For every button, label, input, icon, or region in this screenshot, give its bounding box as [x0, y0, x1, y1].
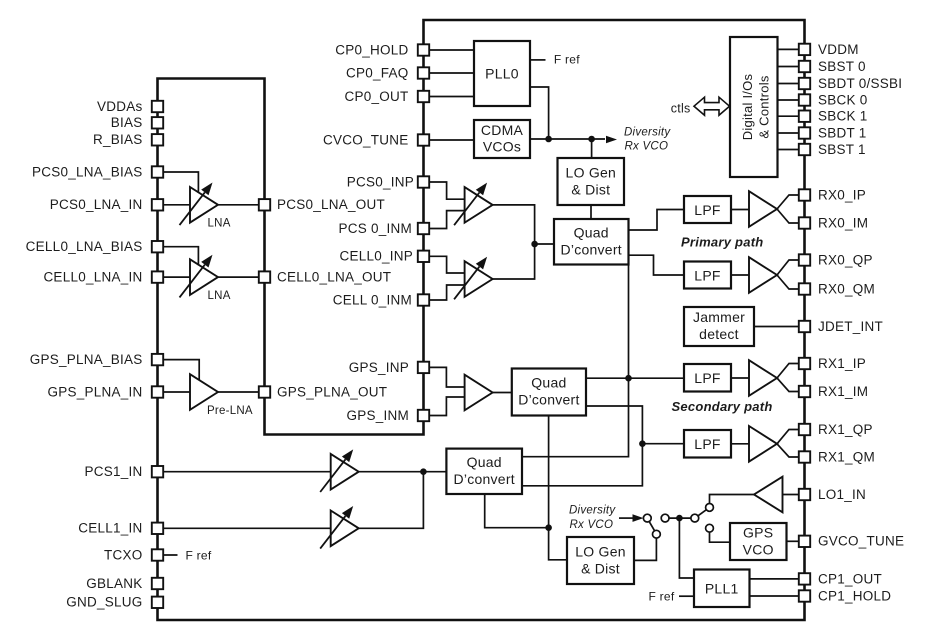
svg-text:LNA: LNA — [208, 290, 231, 302]
svg-text:GND_SLUG: GND_SLUG — [66, 595, 142, 610]
svg-text:SBST 1: SBST 1 — [818, 142, 866, 157]
block GPS VCO — [730, 523, 787, 560]
wire Diversity arrow line (bottom) — [619, 517, 633, 519]
pin CELL1_IN — [152, 523, 163, 534]
svg-text:GPS: GPS — [743, 525, 773, 541]
wire Quad primary corner rail down to diversity Quad — [522, 265, 629, 457]
block Quad D'convert (primary) — [554, 219, 629, 265]
svg-text:RX1_QM: RX1_QM — [818, 449, 875, 464]
wire Quad secondary LO down — [548, 416, 550, 528]
wire G down to GPS VCO — [710, 532, 731, 542]
svg-text:RX0_IM: RX0_IM — [818, 215, 868, 230]
svg-text:PCS0_LNA_IN: PCS0_LNA_IN — [50, 197, 143, 212]
pin LO1_IN — [799, 489, 810, 500]
svg-text:GPS_INM: GPS_INM — [346, 408, 409, 423]
svg-text:SBCK 1: SBCK 1 — [818, 109, 868, 124]
svg-text:VDDAs: VDDAs — [97, 99, 143, 114]
switch contact E (rail right) — [691, 514, 699, 522]
svg-text:CP1_OUT: CP1_OUT — [818, 571, 882, 586]
junction RX1 Q node — [639, 440, 646, 447]
svg-text:VCOs: VCOs — [483, 139, 521, 155]
wire CDMA VCOs out to Diversity arrow — [530, 138, 605, 140]
wire LPF to RX0 I amp — [731, 209, 749, 211]
svg-text:LO Gen: LO Gen — [575, 543, 626, 559]
pin RX1_IP — [799, 358, 810, 369]
pin GPS_PLNA_OUT — [259, 386, 270, 397]
pin GPS_INM — [418, 410, 429, 421]
svg-text:PCS1_IN: PCS1_IN — [84, 464, 142, 479]
svg-text:CELL 0_INM: CELL 0_INM — [333, 292, 412, 307]
wire Quad secondary I out to LPF — [586, 377, 684, 379]
wire LO Gen diversity out to switch — [634, 538, 656, 560]
wire Digital I/O stub y=149.5 — [778, 149, 800, 151]
svg-text:LO Gen: LO Gen — [566, 164, 617, 180]
wire GPS_PLNA_IN to Pre-LNA — [158, 391, 191, 393]
wire RX1 I fork to RX1_IP — [777, 364, 800, 379]
wire F ref stub to PLL1 — [679, 595, 694, 597]
pin CELL0_LNA_OUT — [259, 271, 270, 282]
pin GND_SLUG — [152, 597, 163, 608]
svg-text:LPF: LPF — [694, 267, 720, 283]
svg-text:& Dist: & Dist — [571, 181, 610, 197]
wire PCS1 VGA out to Quad diversity — [359, 471, 447, 473]
wire PLL1 to CP1_OUT — [750, 578, 800, 580]
wire node to Quad primary — [535, 243, 554, 245]
svg-text:F ref: F ref — [649, 589, 675, 603]
svg-text:VCO: VCO — [743, 541, 774, 557]
svg-text:GVCO_TUNE: GVCO_TUNE — [818, 534, 904, 549]
block Quad D'convert (diversity) — [446, 449, 522, 494]
pin SBCK0 — [799, 94, 810, 105]
arrowhead Diversity Rx VCO (bottom) — [633, 514, 644, 522]
pin CELL0_LNA_IN — [152, 271, 163, 282]
block LPF (RX0 I) — [684, 196, 731, 223]
svg-text:GPS_PLNA_BIAS: GPS_PLNA_BIAS — [30, 352, 143, 367]
switch contact B (to LO Gen) — [653, 530, 661, 538]
svg-text:JDET_INT: JDET_INT — [818, 319, 883, 334]
svg-text:& Controls: & Controls — [757, 75, 772, 138]
pin PCS0_INM — [418, 223, 429, 234]
svg-text:RX1_IP: RX1_IP — [818, 356, 866, 371]
svg-text:VDDM: VDDM — [818, 42, 859, 57]
svg-text:PCS0_LNA_OUT: PCS0_LNA_OUT — [277, 197, 385, 212]
bidirectional arrow ctls — [694, 97, 730, 115]
junction RX1 I node — [625, 375, 632, 382]
svg-text:BIAS: BIAS — [111, 115, 143, 130]
svg-text:LPF: LPF — [694, 370, 720, 386]
svg-text:CDMA: CDMA — [481, 122, 524, 138]
svg-text:Quad: Quad — [467, 454, 502, 470]
pin GPS_PLNA_BIAS — [152, 354, 163, 365]
wire Quad primary Q out to LPF — [629, 255, 685, 275]
wire Quad diversity LO — [485, 494, 549, 528]
svg-text:CVCO_TUNE: CVCO_TUNE — [323, 132, 409, 147]
amplifier VGA (CELL1) — [331, 511, 359, 547]
wire PCS0_LNA_BIAS to LNA1 — [158, 172, 199, 193]
svg-text:& Dist: & Dist — [581, 560, 620, 576]
wire F up to LO1 buffer — [710, 495, 755, 504]
svg-text:PLL0: PLL0 — [485, 65, 519, 81]
svg-text:CP1_HOLD: CP1_HOLD — [818, 588, 891, 603]
svg-text:Rx VCO: Rx VCO — [625, 141, 669, 153]
svg-text:PCS 0_INM: PCS 0_INM — [338, 221, 412, 236]
pin CELL0_INM — [418, 294, 429, 305]
wire GPS VCO to GVCO_TUNE — [787, 540, 800, 542]
pin GPS_INP — [418, 362, 429, 373]
switch contact C (rail left) — [661, 514, 669, 522]
svg-text:ctls: ctls — [671, 101, 691, 115]
wire PCS0_LNA_IN to LNA1 — [158, 204, 191, 206]
pin CP0_FAQ — [418, 67, 429, 78]
svg-text:CP0_OUT: CP0_OUT — [344, 89, 408, 104]
junction mixer input node — [531, 241, 538, 248]
svg-text:RX0_QM: RX0_QM — [818, 281, 875, 296]
amplifier VGA (CELL0 main) — [465, 261, 493, 297]
wire CELL0_INP to VGA — [424, 256, 465, 273]
wire CP0_FAQ stub to PLL0 — [424, 72, 475, 74]
wire CVCO_TUNE stub to CDMA VCOs — [424, 139, 475, 141]
svg-text:PCS0_LNA_BIAS: PCS0_LNA_BIAS — [32, 164, 143, 179]
wire CELL0 VGA out to mixer node — [493, 244, 535, 279]
wire LNA1 out to PCS0_LNA_OUT — [218, 204, 265, 206]
pin CVCO_TUNE — [418, 134, 429, 145]
pin PCS1_IN — [152, 466, 163, 477]
wire RX1 Q fork to RX1_QP — [777, 430, 800, 444]
wire LPF to RX0 Q amp — [731, 274, 749, 276]
pin RX1_QM — [799, 451, 810, 462]
wire RX0 Q fork to RX0_QP — [777, 260, 800, 275]
pin BIAS — [152, 117, 163, 128]
pin PCS0_INP — [418, 176, 429, 187]
amplifier LNA (PCS0) U-LNA1 — [190, 187, 218, 223]
pin PCS0_LNA_IN — [152, 199, 163, 210]
wire CP0_OUT stub to PLL0 — [424, 96, 475, 98]
wire GPS_INP to buffer — [424, 367, 465, 387]
svg-text:GPS_INP: GPS_INP — [349, 360, 409, 375]
chip outline (RF receiver IC boundary) — [158, 20, 805, 620]
svg-text:D’convert: D’convert — [561, 241, 622, 257]
block CDMA VCOs — [474, 120, 530, 158]
junction switch rail node — [676, 515, 683, 522]
wire CP0_HOLD stub to PLL0 — [424, 49, 475, 51]
pin RX1_IM — [799, 386, 810, 397]
pin SBCK1 — [799, 111, 810, 122]
wire RX1 Q rail to diversity Quad — [522, 444, 642, 486]
wire PCS0_INM to VGA — [424, 211, 465, 229]
wire Pre-LNA out to GPS_PLNA_OUT — [218, 391, 265, 393]
svg-text:SBST 0: SBST 0 — [818, 59, 866, 74]
wire Quad primary I out to LPF — [629, 210, 685, 231]
wire LO1 buffer to LO1_IN — [783, 494, 800, 496]
wire PLL1 to CP1_HOLD — [750, 595, 800, 597]
switch contact A (diversity input) — [643, 514, 651, 522]
wire PCS1_IN to VGA — [158, 471, 331, 473]
svg-text:Quad: Quad — [574, 224, 609, 240]
wire Digital I/O stub y=100 — [778, 99, 800, 101]
wire PCS0 VGA out to mixer node — [493, 205, 535, 244]
block Digital I/Os & Controls — [730, 37, 778, 177]
svg-text:Primary path: Primary path — [681, 234, 763, 249]
wire LNA2 out to CELL0_LNA_OUT — [218, 276, 265, 278]
svg-text:CELL0_INP: CELL0_INP — [339, 249, 413, 264]
wire CELL1 VGA out joining PCS1 node — [359, 472, 424, 529]
svg-text:RX1_QP: RX1_QP — [818, 422, 873, 437]
pin SBST0 — [799, 61, 810, 72]
block Jammer detect — [684, 307, 754, 346]
pin RX0_IP — [799, 189, 810, 200]
svg-text:CELL0_LNA_IN: CELL0_LNA_IN — [43, 270, 142, 285]
svg-text:Pre-LNA: Pre-LNA — [207, 405, 253, 417]
block LO Gen & Dist (primary) — [558, 158, 625, 205]
wire Digital I/O stub y=116.2 — [778, 115, 800, 117]
svg-text:CELL1_IN: CELL1_IN — [78, 521, 142, 536]
pin PCS0_LNA_BIAS — [152, 166, 163, 177]
wire CELL1_IN to VGA — [158, 527, 331, 529]
svg-text:GPS_PLNA_OUT: GPS_PLNA_OUT — [277, 384, 387, 399]
wire TCXO F ref stub — [158, 554, 178, 556]
wire CELL0_INM to VGA — [424, 285, 465, 300]
wire RX0 I fork to RX0_IP — [777, 195, 800, 209]
pin GBLANK — [152, 578, 163, 589]
svg-text:TCXO: TCXO — [104, 547, 143, 562]
pin SBDT1 — [799, 127, 810, 138]
switch contact G (to GPS VCO) — [706, 524, 714, 532]
svg-text:RX0_QP: RX0_QP — [818, 252, 873, 267]
pin CELL0_INP — [418, 251, 429, 262]
block PLL0 — [474, 41, 530, 106]
wire Digital I/O stub y=83.5 — [778, 83, 800, 85]
amplifier LNA (CELL0) U-LNA2 — [190, 259, 218, 295]
block LPF (RX1 Q) — [684, 430, 731, 458]
amplifier RX0 I buffer — [749, 191, 777, 227]
amplifier VGA (PCS1) — [331, 454, 359, 490]
svg-text:Secondary path: Secondary path — [672, 399, 773, 414]
svg-text:D’convert: D’convert — [454, 471, 515, 487]
pin RX0_IM — [799, 217, 810, 228]
svg-text:D’convert: D’convert — [518, 391, 579, 407]
amplifier Pre-LNA (GPS) — [190, 374, 218, 410]
pin GPS_PLNA_IN — [152, 386, 163, 397]
switch lever E-F — [698, 510, 706, 516]
pin RX1_QP — [799, 424, 810, 435]
svg-text:LO1_IN: LO1_IN — [818, 487, 866, 502]
junction PCS1/CELL1 node — [420, 468, 427, 475]
pin RX0_QM — [799, 283, 810, 294]
pin TCXO — [152, 549, 163, 560]
switch contact F (to LO1 buffer) — [706, 504, 714, 512]
wire LO node to LO Gen diversity — [549, 528, 567, 560]
junction diversity LO node — [545, 524, 552, 531]
wire CELL0_LNA_IN to LNA2 — [158, 276, 191, 278]
pin PCS0_LNA_OUT — [259, 199, 270, 210]
svg-text:PCS0_INP: PCS0_INP — [347, 174, 414, 189]
wire CELL0_LNA_BIAS to LNA2 — [158, 247, 199, 266]
svg-text:LPF: LPF — [694, 202, 720, 218]
amplifier VGA (PCS0 main) — [465, 187, 493, 223]
svg-text:detect: detect — [699, 326, 739, 342]
wire LPF to RX1 Q amp — [731, 443, 749, 445]
wire RX0 I fork to RX0_IM — [777, 209, 800, 223]
pin JDET_INT — [799, 321, 810, 332]
switch lever A-B — [649, 522, 654, 531]
pin VDDM — [799, 44, 810, 55]
svg-text:Diversity: Diversity — [569, 505, 616, 517]
wire RX0 Q fork to RX0_QM — [777, 275, 800, 289]
svg-text:F ref: F ref — [186, 549, 212, 563]
wire Jammer detect to JDET_INT — [754, 326, 800, 328]
wire PLL0 out down to LO line — [530, 87, 549, 139]
svg-text:SBDT 1: SBDT 1 — [818, 125, 867, 140]
wire PCS0_INP to VGA — [424, 182, 465, 199]
block LO Gen & Dist (diversity) — [567, 537, 634, 584]
wire GPS_PLNA_BIAS to Pre-LNA — [158, 360, 200, 381]
svg-text:Diversity: Diversity — [624, 127, 671, 139]
svg-text:RX0_IP: RX0_IP — [818, 187, 866, 202]
wire LO Gen primary to Quad primary — [590, 205, 592, 219]
wire switch rail — [669, 517, 691, 519]
wire PLL0 F ref stub — [530, 59, 546, 61]
pin R_BIAS — [152, 134, 163, 145]
amplifier RX1 Q buffer — [749, 426, 777, 462]
svg-text:Rx VCO: Rx VCO — [570, 519, 614, 531]
pin GVCO_TUNE — [799, 536, 810, 547]
svg-text:Digital I/Os: Digital I/Os — [740, 73, 755, 140]
svg-text:CP0_HOLD: CP0_HOLD — [335, 42, 408, 57]
svg-text:CELL0_LNA_BIAS: CELL0_LNA_BIAS — [26, 239, 143, 254]
wire RX1 Q fork to RX1_QM — [777, 444, 800, 457]
amplifier RX0 Q buffer — [749, 257, 777, 293]
wire GPS buffer out to Quad secondary — [493, 392, 512, 394]
svg-text:LPF: LPF — [694, 436, 720, 452]
wire Quad secondary Q out to LPF — [586, 406, 684, 444]
block LPF (RX0 Q) — [684, 262, 731, 289]
amplifier RX1 I buffer — [749, 360, 777, 396]
svg-text:CELL0_LNA_OUT: CELL0_LNA_OUT — [277, 270, 391, 285]
wire LPF to RX1 I amp — [731, 377, 749, 379]
pin VDDAs — [152, 101, 163, 112]
svg-text:GPS_PLNA_IN: GPS_PLNA_IN — [47, 384, 142, 399]
pin SBST1 — [799, 144, 810, 155]
pin RX0_QP — [799, 254, 810, 265]
block LPF (RX1 I) — [684, 364, 731, 392]
pin CP1_OUT — [799, 573, 810, 584]
svg-text:SBCK 0: SBCK 0 — [818, 92, 868, 107]
junction LO Gen tap node — [588, 136, 595, 143]
pin CP1_HOLD — [799, 590, 810, 601]
svg-text:R_BIAS: R_BIAS — [93, 132, 143, 147]
pin SBDT0/SSBI — [799, 78, 810, 89]
junction PLL0/CDMA LO node — [545, 136, 552, 143]
svg-text:RX1_IM: RX1_IM — [818, 384, 868, 399]
pin CELL0_LNA_BIAS — [152, 241, 163, 252]
svg-text:PLL1: PLL1 — [705, 581, 739, 597]
amplifier GPS buffer — [465, 375, 493, 411]
wire Digital I/O stub y=66.5 — [778, 66, 800, 68]
svg-text:GBLANK: GBLANK — [86, 576, 142, 591]
wire GPS_INM to buffer — [424, 397, 465, 416]
wire rail down to PLL1 — [679, 518, 694, 578]
wire RX1 I fork to RX1_IM — [777, 378, 800, 392]
wire Digital I/O stub y=49.4 — [778, 48, 800, 50]
pin CP0_OUT — [418, 91, 429, 102]
svg-text:CP0_FAQ: CP0_FAQ — [346, 65, 409, 80]
pin CP0_HOLD — [418, 44, 429, 55]
arrowhead Diversity Rx VCO (top) — [606, 136, 617, 144]
svg-text:SBDT 0/SSBI: SBDT 0/SSBI — [818, 76, 902, 91]
block PLL1 — [694, 570, 750, 608]
wire Digital I/O stub y=133 — [778, 132, 800, 134]
wire LO tap down to LO Gen primary — [591, 139, 593, 158]
block Quad D'convert (GPS/secondary) — [512, 369, 586, 416]
svg-text:Quad: Quad — [531, 374, 566, 390]
svg-text:Jammer: Jammer — [693, 309, 745, 325]
svg-text:F ref: F ref — [554, 53, 580, 67]
svg-text:LNA: LNA — [208, 217, 231, 229]
amplifier LO1 input buffer — [754, 477, 783, 513]
